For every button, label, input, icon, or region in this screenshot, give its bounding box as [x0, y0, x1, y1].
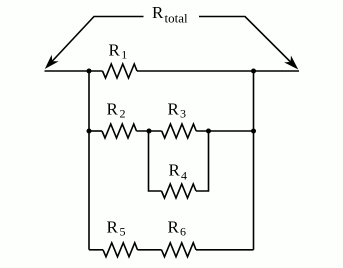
svg-text:1: 1: [121, 48, 127, 62]
svg-text:R: R: [107, 218, 119, 237]
svg-text:R: R: [107, 100, 119, 119]
svg-text:5: 5: [120, 225, 126, 239]
wire right rail: [253, 71, 255, 250]
svg-text:R: R: [109, 40, 121, 59]
resistor R5: [103, 218, 138, 257]
svg-text:6: 6: [180, 225, 186, 239]
resistor R3: [162, 100, 197, 139]
svg-text:R: R: [168, 100, 180, 119]
resistor R1: [103, 40, 138, 78]
node junction dot row2 between R2 and R3: [147, 129, 152, 134]
resistor R2: [102, 100, 137, 139]
node junction dot top-right: [251, 69, 256, 74]
wire R4 parallel branch: [149, 131, 209, 191]
node junction dot top-left: [87, 69, 92, 74]
svg-text:2: 2: [120, 107, 126, 121]
svg-text:R: R: [169, 161, 181, 180]
wire bottom row: [89, 249, 254, 251]
node junction dot row2-left: [87, 129, 92, 134]
svg-text:4: 4: [181, 168, 187, 182]
svg-text:total: total: [165, 11, 188, 26]
label Rtotal: [152, 3, 188, 26]
wire top horizontal right of R1: [137, 70, 299, 72]
svg-text:3: 3: [180, 107, 186, 121]
pointer line left (Rtotal to left node): [52, 17, 144, 62]
wire row2 horizontal: [89, 130, 254, 132]
wire top horizontal left of R1: [45, 70, 103, 72]
resistor R6: [162, 218, 197, 257]
node junction dot row2 after R3: [206, 129, 211, 134]
resistor R4: [162, 161, 197, 198]
arrowhead right: [286, 57, 298, 69]
svg-text:R: R: [152, 3, 164, 22]
pointer line right (Rtotal to right node): [199, 17, 291, 63]
node junction dot row2-right: [251, 129, 256, 134]
svg-text:R: R: [168, 218, 180, 237]
arrowhead left: [46, 56, 57, 68]
wire left rail: [88, 71, 90, 250]
